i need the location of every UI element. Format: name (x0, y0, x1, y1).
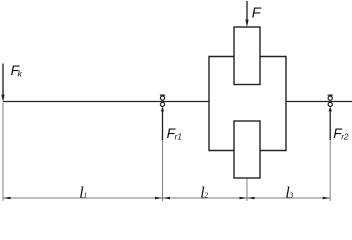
label l2 (200, 184, 208, 201)
label Fk (11, 63, 23, 78)
extension line below support B1 (162, 140, 164, 201)
dimension arrowhead right (tip at x=330.2) (323, 197, 331, 200)
svg-text:1: 1 (83, 191, 87, 200)
label l3 (285, 184, 293, 201)
extension line below support B2 (329, 140, 331, 201)
svg-text:k: k (18, 69, 23, 79)
force arrow Fk (down, at left end of beam) (1, 64, 4, 103)
label l1 (79, 184, 87, 201)
label Fr2 (333, 126, 349, 142)
dimension line (3, 197, 330, 199)
housing rectangle (outer frame) (209, 56, 286, 151)
extension line below lower block (246, 179, 248, 202)
lower block (plunger) (234, 121, 260, 178)
bearing support B2 (two rollers on beam) (328, 95, 333, 106)
force arrow F (down, onto upper block) (245, 1, 248, 27)
upper block (plunger) (234, 27, 260, 85)
bearing support B1 (two rollers on beam) (160, 95, 165, 106)
svg-text:r1: r1 (175, 132, 182, 141)
dimension arrowhead left (tip at x=3) (3, 197, 11, 200)
reaction force arrow Fr1 (up) (161, 107, 164, 140)
wire: beam segment left (from Fk to housing) (3, 101, 209, 103)
dimension arrowheads at block centre (tips meet at x=247) (240, 197, 248, 200)
svg-text:3: 3 (288, 191, 293, 200)
reaction force arrow Fr2 (up) (329, 107, 332, 140)
svg-text:F: F (252, 4, 262, 21)
dimension arrowheads at B1 (tips meet at x=162.5) (155, 197, 163, 200)
svg-text:2: 2 (204, 191, 208, 200)
extension line at left end (2, 103, 4, 201)
label Fr1 (167, 126, 182, 142)
wire: beam segment right (from housing to right edge) (286, 101, 352, 103)
svg-text:r2: r2 (341, 132, 349, 141)
